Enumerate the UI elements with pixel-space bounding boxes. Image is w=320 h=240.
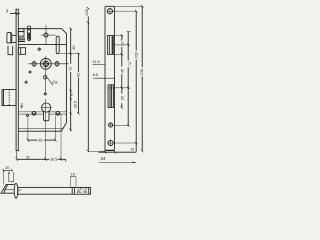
- svg-text:72: 72: [128, 62, 132, 66]
- cylinder screw hole: [109, 123, 113, 127]
- svg-text:235: 235: [85, 9, 89, 15]
- svg-text:200: 200: [134, 52, 138, 58]
- svg-text:38: 38: [38, 139, 42, 143]
- svg-text:20: 20: [5, 166, 9, 170]
- svg-text:8: 8: [21, 102, 23, 106]
- small hole with leader and label: [44, 76, 47, 79]
- dim 38 under case: [28, 139, 37, 141]
- follower nut: [40, 58, 51, 69]
- diamond hole upper: [37, 47, 41, 51]
- euro profile cylinder: [42, 103, 51, 112]
- svg-text:16.5: 16.5: [50, 157, 57, 161]
- x=121.8 chain: [121, 36, 123, 41]
- technical drawing: mortise lock dimensioned views: [0, 0, 144, 200]
- svg-text:11.5: 11.5: [93, 60, 100, 64]
- hole left of cylinder: [32, 111, 36, 115]
- cross hole upper (on vertical centerline): [44, 33, 48, 37]
- svg-text:∅8: ∅8: [52, 80, 58, 85]
- dim line x=70.7: [70, 29, 72, 132]
- x=136.2 dim (200): [135, 11, 137, 51]
- svg-text:40: 40: [72, 45, 76, 49]
- long dim line x=88: [87, 7, 89, 10]
- bolt window: [108, 85, 114, 108]
- svg-text:8.5: 8.5: [77, 190, 88, 194]
- left small hole: [32, 62, 36, 66]
- x=142.2 dim (235): [141, 6, 143, 67]
- capsule slot with dark dot and fill: [28, 26, 31, 41]
- case bar: [18, 187, 91, 194]
- faceplate strip (main view): [15, 9, 17, 150]
- latch head (outside plate): [7, 32, 12, 43]
- rib lines through cylinder row: [18, 111, 44, 113]
- diamond mid-left: [24, 80, 28, 84]
- svg-text:72: 72: [69, 67, 73, 71]
- diamond below left hole: [28, 70, 32, 74]
- faceplate cross-section (lens): [14, 183, 18, 198]
- hole right of cylinder: [56, 111, 60, 115]
- svg-text:D: D: [26, 155, 29, 160]
- latch connect lines to plate: [12, 34, 16, 36]
- latch bolt side view with bevel: [1, 185, 14, 194]
- svg-text:8: 8: [69, 94, 73, 96]
- vertical slot capsule mid: [56, 36, 59, 53]
- svg-text:15: 15: [71, 172, 75, 176]
- svg-text:19: 19: [121, 42, 125, 46]
- svg-text:235: 235: [140, 69, 144, 75]
- svg-text:8.5: 8.5: [93, 73, 98, 77]
- bottom screw hole: [108, 140, 113, 145]
- svg-text:92: 92: [76, 73, 80, 77]
- D / 16.5 dim row: [17, 158, 64, 160]
- case outline with chamfered top-right corner: [18, 29, 66, 132]
- 24 width dim under plate: [104, 151, 106, 153]
- svg-text:24: 24: [101, 156, 106, 161]
- svg-text:35: 35: [121, 96, 125, 100]
- guard bolt left of plate: [8, 46, 13, 55]
- plate bottom cap: [105, 149, 115, 151]
- top screw hole: [107, 9, 112, 14]
- diamond left low: [26, 114, 30, 118]
- svg-text:15: 15: [130, 147, 134, 151]
- deadbolt protruding left: [2, 90, 16, 106]
- guard block right of plate: [18, 48, 25, 55]
- follower centerline: [28, 63, 72, 65]
- horizontal guide line under latch: [18, 44, 66, 46]
- svg-text:26.5: 26.5: [74, 101, 78, 108]
- axis below follower: [44, 71, 46, 92]
- latch inner blocks right of plate: [18, 29, 24, 32]
- latch window: [108, 36, 114, 55]
- diamond on axis: [43, 92, 47, 96]
- svg-text:45: 45: [121, 69, 125, 73]
- corner ext line: [16, 152, 18, 158]
- right small hole: [55, 62, 59, 66]
- x=128.2 dim: [127, 32, 129, 61]
- dim line x=78.4: [77, 54, 79, 72]
